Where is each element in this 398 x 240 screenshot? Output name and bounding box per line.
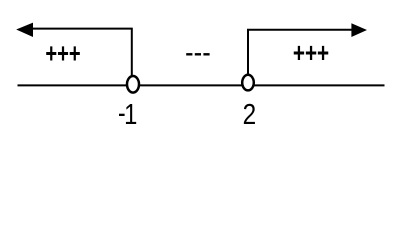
node open circle at -1 bbox=[127, 76, 139, 93]
arrowhead right bbox=[351, 23, 367, 37]
svg-text:+++: +++ bbox=[45, 38, 80, 69]
label -1 minus bbox=[119, 114, 125, 116]
svg-text:+++: +++ bbox=[293, 38, 329, 69]
svg-text:2: 2 bbox=[243, 98, 257, 130]
wire left arrow (horizontal + vertical drop to -1) bbox=[30, 29, 132, 76]
wire right arrow (vertical rise from 2 + horizontal) bbox=[248, 30, 353, 75]
svg-text:1: 1 bbox=[124, 98, 137, 131]
number line bbox=[18, 84, 385, 86]
arrowhead left bbox=[16, 23, 33, 37]
node open circle at 2 bbox=[242, 75, 254, 91]
label --- middle bbox=[186, 53, 209, 55]
